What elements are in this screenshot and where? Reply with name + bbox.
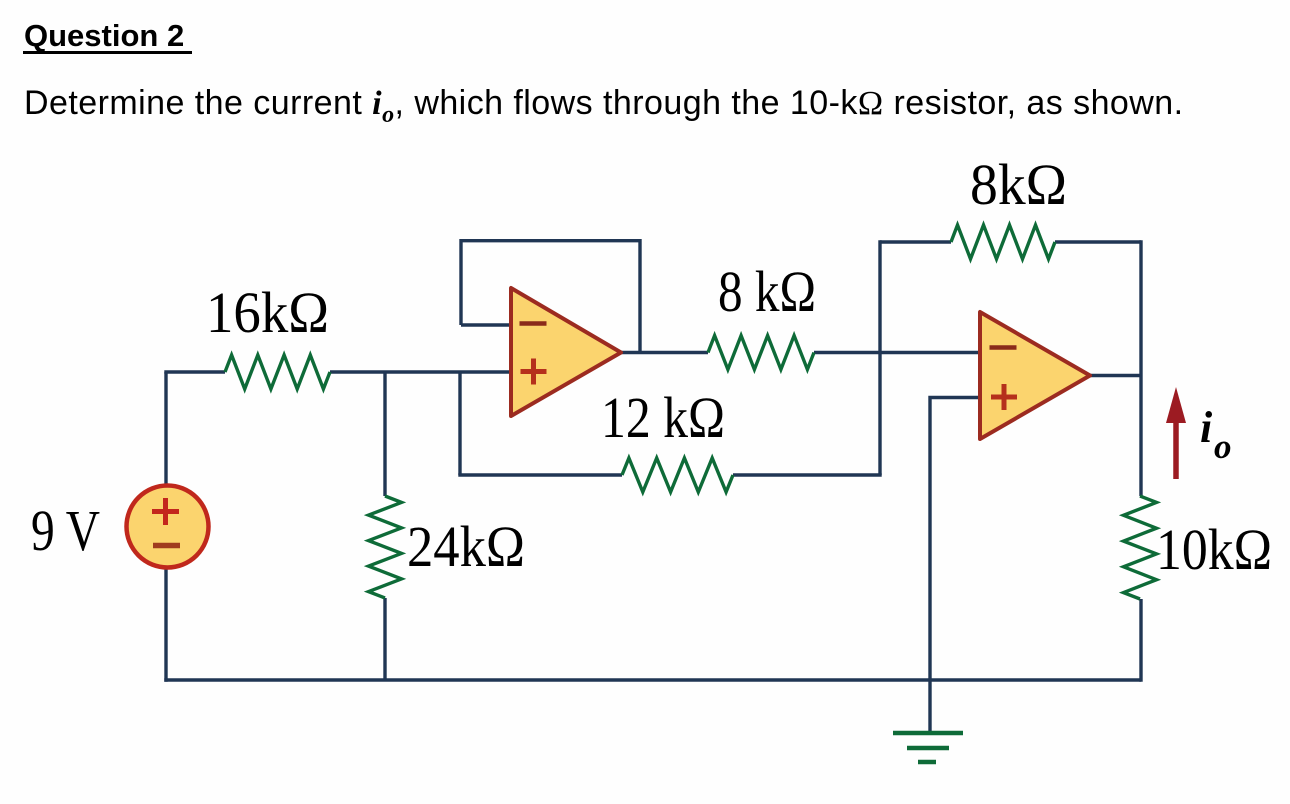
svg-text:10kΩ: 10kΩ	[1156, 517, 1272, 582]
svg-text:24kΩ: 24kΩ	[407, 514, 525, 579]
svg-text:12 kΩ: 12 kΩ	[601, 385, 725, 450]
svg-text:o: o	[1214, 427, 1232, 466]
svg-text:16kΩ: 16kΩ	[206, 280, 329, 345]
svg-text:8kΩ: 8kΩ	[970, 152, 1067, 217]
svg-text:i: i	[1200, 403, 1213, 452]
svg-text:9 V: 9 V	[31, 498, 100, 563]
svg-text:8 kΩ: 8 kΩ	[718, 259, 816, 324]
